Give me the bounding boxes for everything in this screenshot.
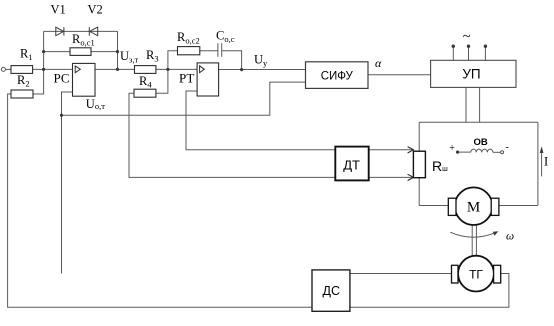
svg-text:~: ~	[463, 29, 471, 45]
svg-text:М: М	[467, 200, 480, 216]
svg-text:Uз,т: Uз,т	[120, 49, 139, 65]
svg-text:Rо,с2: Rо,с2	[177, 30, 200, 46]
svg-text:ДС: ДС	[323, 284, 341, 298]
svg-text:R4: R4	[139, 74, 152, 90]
svg-text:ДТ: ДТ	[343, 158, 360, 173]
svg-text:УП: УП	[462, 67, 480, 82]
svg-text:Rо,с1: Rо,с1	[72, 32, 95, 48]
svg-text:V2: V2	[88, 3, 103, 17]
svg-text:R1: R1	[20, 46, 33, 62]
svg-text:ТГ: ТГ	[469, 268, 483, 282]
svg-text:V1: V1	[51, 3, 66, 17]
svg-text:R2: R2	[17, 73, 30, 89]
svg-text:Uу: Uу	[254, 53, 268, 69]
svg-text:Rш: Rш	[432, 158, 448, 174]
svg-text:+: +	[449, 143, 455, 154]
svg-text:ОВ: ОВ	[473, 137, 487, 148]
svg-text:I: I	[544, 155, 548, 169]
svg-text:R3: R3	[146, 48, 159, 64]
svg-text:α: α	[375, 56, 382, 70]
svg-text:СИФУ: СИФУ	[321, 70, 354, 82]
svg-text:РТ: РТ	[179, 71, 194, 86]
svg-text:-: -	[506, 142, 509, 153]
svg-text:РС: РС	[54, 70, 70, 85]
svg-text:Uо,т: Uо,т	[86, 97, 105, 111]
svg-text:ω: ω	[506, 230, 514, 242]
svg-text:Со,с: Со,с	[216, 29, 235, 45]
